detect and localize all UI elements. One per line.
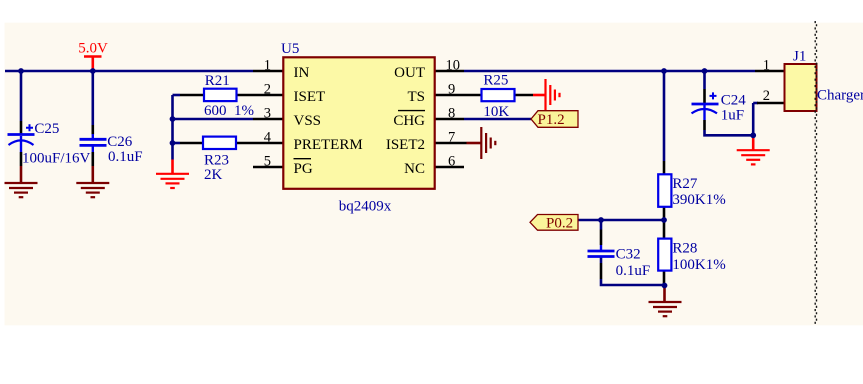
svg-text:CHG: CHG — [393, 113, 425, 129]
svg-text:390K1%: 390K1% — [672, 192, 725, 208]
svg-text:IN: IN — [294, 65, 310, 81]
svg-text:VSS: VSS — [294, 113, 322, 129]
svg-text:7: 7 — [448, 129, 455, 145]
svg-text:P0.2: P0.2 — [546, 216, 573, 232]
svg-text:NC: NC — [404, 161, 425, 177]
svg-text:R28: R28 — [672, 240, 697, 256]
svg-text:P1.2: P1.2 — [538, 112, 565, 128]
svg-text:R25: R25 — [483, 73, 508, 89]
svg-text:0.1uF: 0.1uF — [108, 149, 143, 165]
svg-text:100K1%: 100K1% — [672, 257, 725, 273]
svg-text:U5: U5 — [281, 41, 299, 57]
svg-text:2: 2 — [763, 88, 770, 104]
svg-text:J1: J1 — [793, 49, 806, 65]
svg-text:OUT: OUT — [394, 65, 425, 81]
svg-text:5: 5 — [264, 153, 271, 169]
svg-text:PRETERM: PRETERM — [294, 137, 363, 153]
svg-text:8: 8 — [448, 105, 455, 121]
svg-text:1: 1 — [763, 57, 770, 73]
svg-text:5.0V: 5.0V — [78, 41, 108, 57]
svg-text:TS: TS — [407, 89, 425, 105]
svg-text:2: 2 — [264, 81, 271, 97]
svg-text:2K: 2K — [204, 167, 223, 183]
svg-text:100uF/16V: 100uF/16V — [22, 151, 91, 167]
svg-text:10K: 10K — [483, 104, 509, 120]
svg-text:R27: R27 — [672, 176, 698, 192]
svg-text:6: 6 — [448, 153, 455, 169]
svg-text:R23: R23 — [204, 152, 229, 168]
svg-text:C26: C26 — [107, 134, 133, 150]
svg-text:R21: R21 — [205, 73, 230, 89]
svg-text:0.1uF: 0.1uF — [616, 263, 651, 279]
svg-text:1uF: 1uF — [721, 108, 744, 124]
svg-text:9: 9 — [448, 81, 455, 97]
svg-text:4: 4 — [264, 129, 272, 145]
svg-text:ISET: ISET — [294, 89, 326, 105]
svg-text:600 1%: 600 1% — [204, 103, 254, 119]
svg-text:1: 1 — [264, 57, 271, 73]
svg-text:3: 3 — [264, 105, 271, 121]
svg-text:PG: PG — [294, 161, 313, 177]
svg-text:10: 10 — [446, 57, 461, 73]
svg-text:bq2409x: bq2409x — [339, 199, 392, 215]
svg-text:C25: C25 — [34, 121, 59, 137]
svg-text:ISET2: ISET2 — [386, 137, 425, 153]
svg-text:Charger: Charger — [817, 88, 863, 104]
svg-text:C32: C32 — [616, 246, 641, 262]
svg-text:C24: C24 — [721, 92, 747, 108]
